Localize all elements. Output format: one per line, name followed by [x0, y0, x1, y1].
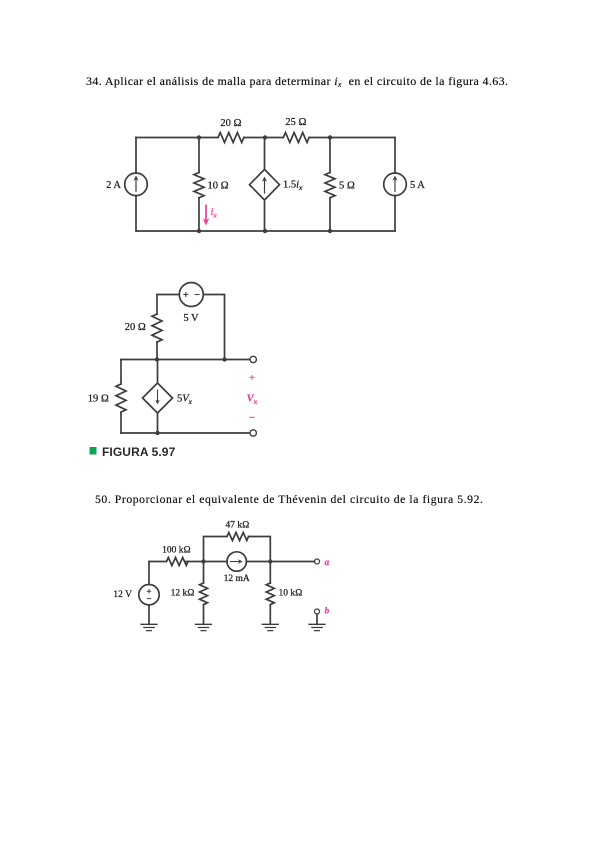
wire: main rail left of 100k	[149, 561, 167, 563]
svg-text:ix: ix	[211, 207, 218, 220]
resistor 47k	[227, 533, 249, 541]
wire: top-mid segment	[244, 137, 283, 139]
wire: main rail 12mA to terminal a	[246, 561, 314, 563]
junction node: top of dependent-source branch	[263, 135, 267, 139]
resistor 20ohm (fig 5.97) branch wires	[156, 295, 158, 360]
svg-text:25 Ω: 25 Ω	[285, 117, 306, 128]
junction node: 10k/47k junction	[268, 559, 272, 563]
svg-text:Vx: Vx	[247, 394, 258, 407]
wire: terminal b to ground	[316, 614, 318, 624]
svg-text:5 V: 5 V	[183, 313, 199, 324]
junction node: bottom of 10-ohm branch	[197, 229, 201, 233]
svg-text:5 Ω: 5 Ω	[339, 181, 355, 192]
resistor 10k branch wires	[269, 562, 271, 625]
resistor R1 10ohm branch wires	[198, 138, 200, 232]
plus minus inside 12V source	[147, 589, 151, 599]
svg-text:–: –	[248, 412, 255, 423]
svg-text:2 A: 2 A	[106, 180, 121, 191]
junction node: top of 5-ohm branch	[328, 135, 332, 139]
junction node: 5V branch to middle rail	[222, 357, 226, 361]
resistor 19ohm branch wires	[120, 360, 122, 434]
wire: top segment right of 5V	[203, 295, 224, 360]
junction node: bottom of 5-ohm branch	[328, 229, 332, 233]
resistor 20ohm (fig 5.97)	[152, 314, 162, 342]
wire: top-right segment	[309, 137, 395, 139]
svg-text:19 Ω: 19 Ω	[88, 394, 109, 405]
svg-text:20 Ω: 20 Ω	[220, 118, 241, 129]
figure caption 5.97	[102, 445, 175, 459]
dependent source 5Vx branch wires	[157, 360, 159, 434]
current source 12mA	[227, 552, 246, 571]
problem 34 text	[86, 75, 508, 87]
resistor 12k	[200, 583, 208, 605]
wire: top segment left of 5V	[157, 294, 179, 296]
ground below b	[309, 624, 325, 630]
wire: top branch right vertical	[249, 537, 271, 562]
resistor 19ohm	[116, 384, 126, 412]
resistor R2 5ohm branch wires	[329, 138, 331, 232]
resistor 10k	[266, 583, 274, 605]
svg-text:5Vx: 5Vx	[177, 394, 193, 407]
labels circuit 1	[106, 117, 425, 220]
svg-text:1.5ix: 1.5ix	[283, 180, 303, 193]
junction node: 12k/47k/100k junction	[201, 559, 205, 563]
resistor 12k branch wires	[203, 562, 205, 625]
ground below 10k	[262, 624, 278, 630]
voltage source 5V	[179, 283, 203, 307]
svg-text:12 kΩ: 12 kΩ	[171, 589, 195, 599]
svg-text:12 mA: 12 mA	[224, 574, 250, 584]
dependent source 1.5ix branch wires	[264, 138, 266, 232]
junction node: bottom of dependent-source branch	[263, 229, 267, 233]
label ix magenta	[211, 207, 218, 220]
resistor 100k	[167, 558, 189, 566]
resistor 25ohm	[283, 133, 309, 143]
resistor R2 5ohm	[325, 173, 335, 198]
green square of figure caption	[90, 447, 97, 455]
svg-text:20 Ω: 20 Ω	[125, 322, 146, 333]
labels circuit 2	[88, 313, 258, 423]
wire: main rail 100k to 12mA	[186, 561, 227, 563]
junction node: dependent source to bottom rail	[155, 431, 159, 435]
wire: bottom rail	[136, 230, 395, 232]
label terminal b	[325, 607, 330, 617]
label Vx minus	[248, 412, 255, 423]
wire: top branch left vertical	[204, 537, 228, 562]
svg-text:5 A: 5 A	[410, 180, 425, 191]
wire: middle rail	[121, 359, 250, 361]
current source I1 2A branch wires	[135, 138, 137, 232]
svg-text:12 V: 12 V	[113, 590, 132, 600]
magenta current arrow ix	[203, 205, 209, 226]
svg-text:47 kΩ: 47 kΩ	[226, 521, 250, 531]
label Vx plus	[249, 373, 255, 384]
current source I2 5A branch wires	[394, 138, 396, 232]
current source I1 2A	[125, 173, 148, 196]
current source I2 5A	[384, 173, 407, 196]
svg-text:a: a	[325, 558, 330, 568]
ground below 12V	[141, 624, 157, 630]
terminal top (Vx+)	[250, 356, 256, 362]
dependent current source 1.5ix diamond	[250, 169, 280, 200]
svg-text:+: +	[249, 373, 255, 384]
svg-text:b: b	[325, 607, 330, 617]
ground below 12k	[196, 624, 212, 630]
label Vx	[247, 394, 258, 407]
junction node: top of 10-ohm branch	[197, 135, 201, 139]
labels circuit 3	[113, 521, 329, 617]
svg-text:10 Ω: 10 Ω	[208, 181, 229, 192]
voltage source 12V	[139, 585, 159, 605]
junction node: 20-ohm to middle rail	[155, 357, 159, 361]
voltage source 12V branch wires	[148, 562, 150, 625]
resistor 20ohm	[218, 133, 244, 143]
wire: top-left segment	[136, 137, 218, 139]
dependent voltage source 5Vx diamond	[143, 383, 173, 413]
resistor R1 10ohm	[194, 173, 204, 198]
wire: bottom rail (fig 5.97)	[121, 432, 249, 434]
plus minus inside 5V source	[183, 292, 199, 297]
problem 50 text	[95, 494, 484, 506]
label terminal a	[325, 558, 330, 568]
terminal b circle	[315, 609, 320, 614]
terminal bottom (Vx-)	[250, 430, 256, 436]
svg-text:10 kΩ: 10 kΩ	[279, 589, 303, 599]
svg-text:100 kΩ: 100 kΩ	[162, 545, 191, 555]
terminal a circle	[315, 559, 320, 564]
